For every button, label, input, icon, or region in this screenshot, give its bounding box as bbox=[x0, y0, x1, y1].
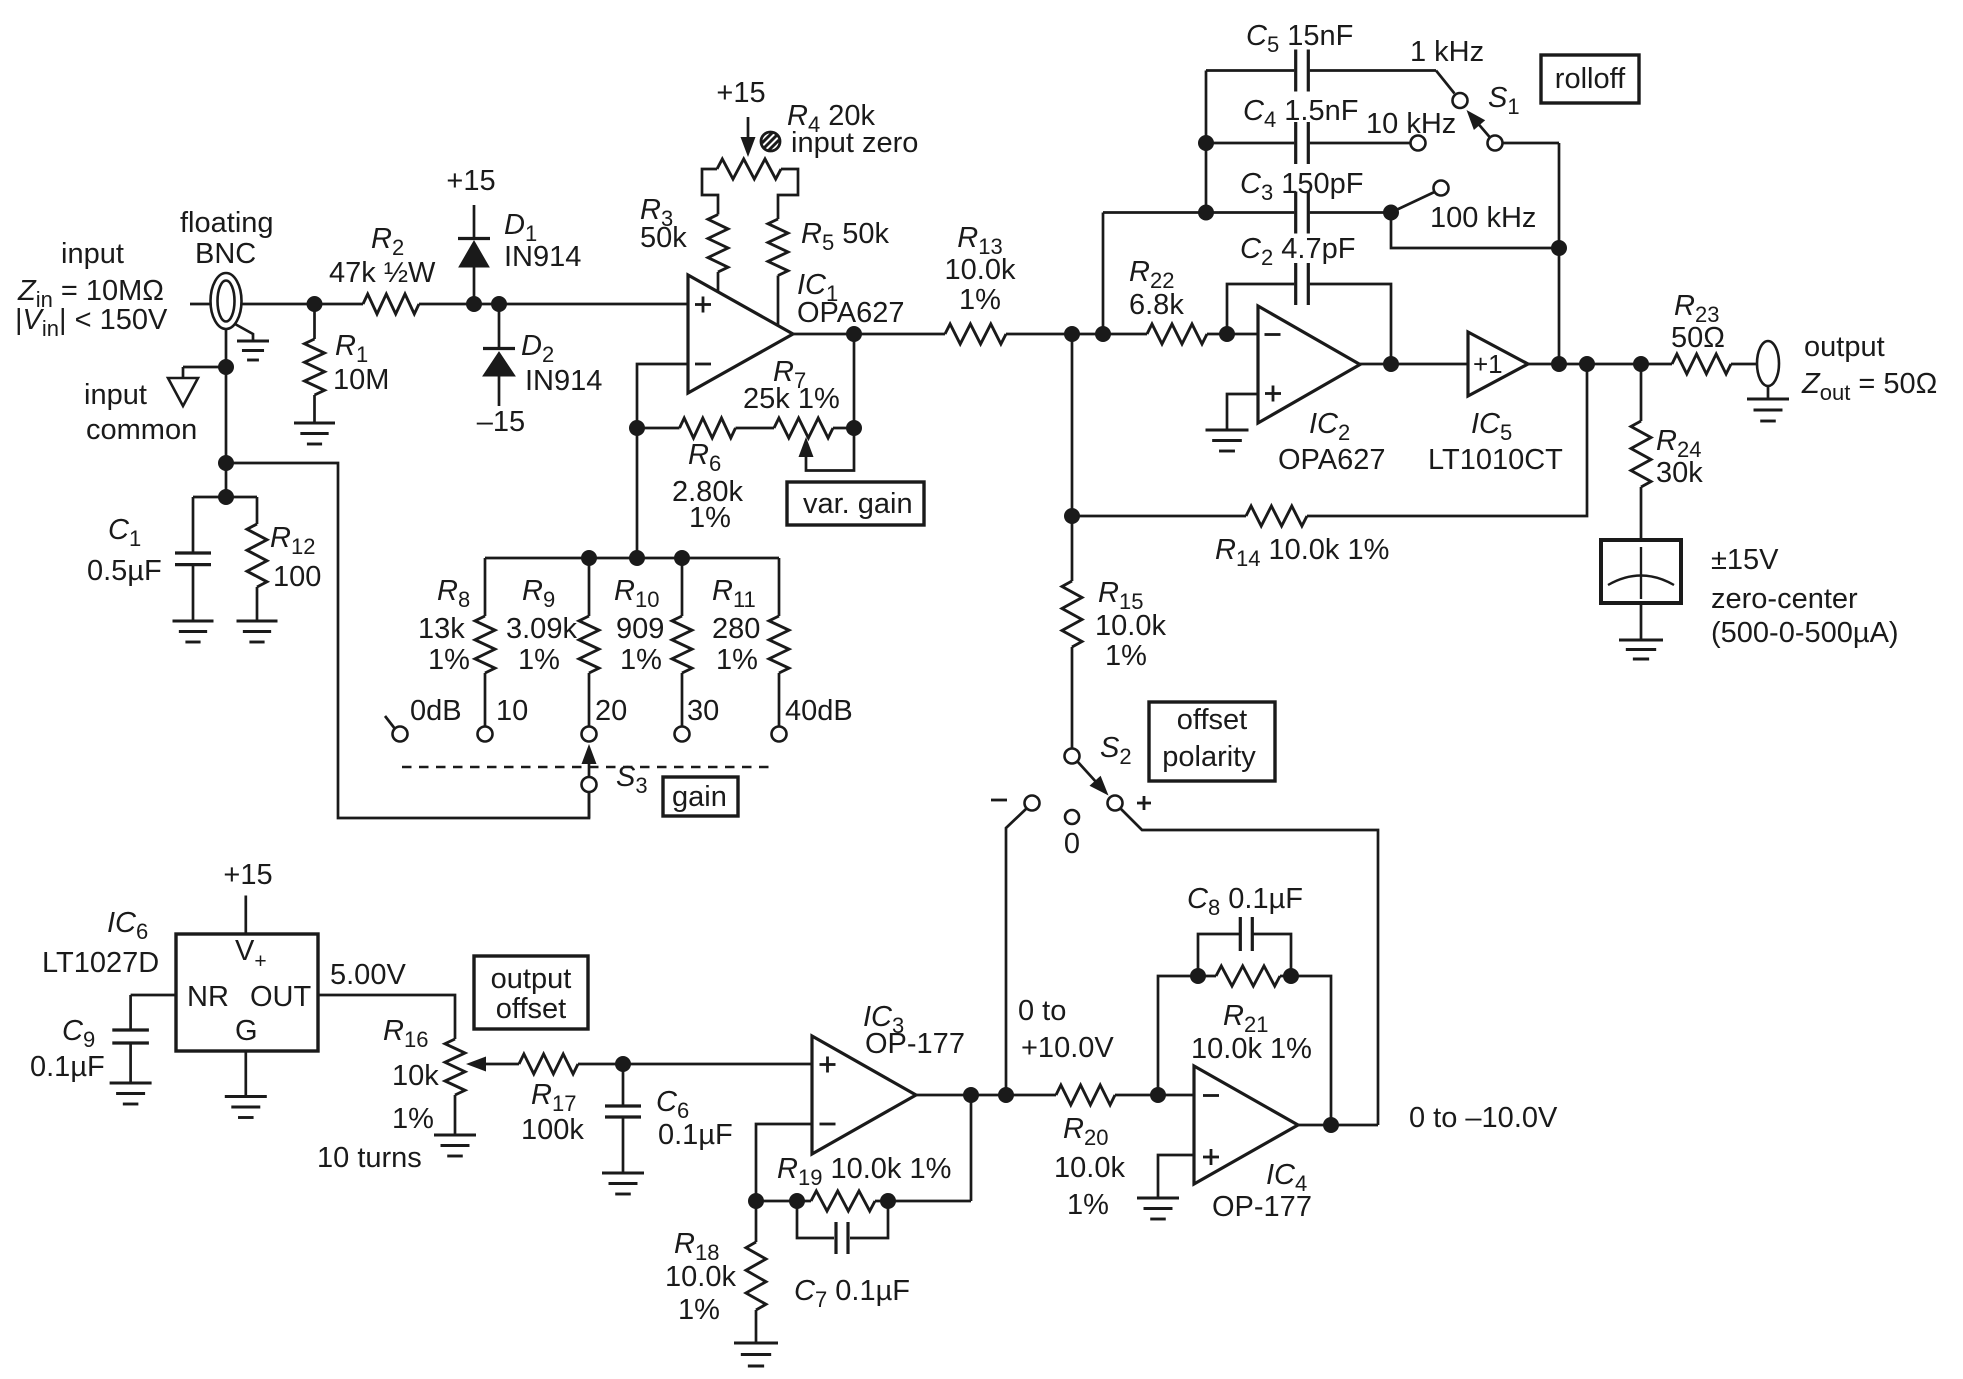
svg-text:0 to –10.0V: 0 to –10.0V bbox=[1409, 1102, 1558, 1134]
svg-text:1%: 1% bbox=[959, 284, 1001, 316]
svg-text:0.1µF: 0.1µF bbox=[30, 1051, 105, 1083]
svg-text:10 kHz: 10 kHz bbox=[1366, 108, 1456, 140]
svg-text:10.0k 1%: 10.0k 1% bbox=[1191, 1033, 1312, 1065]
svg-text:30k: 30k bbox=[1656, 457, 1703, 489]
svg-text:offset: offset bbox=[496, 993, 566, 1025]
svg-text:common: common bbox=[86, 414, 197, 446]
svg-text:OUT: OUT bbox=[250, 981, 312, 1013]
svg-text:output: output bbox=[491, 963, 572, 995]
svg-text:10.0k: 10.0k bbox=[1095, 610, 1166, 642]
svg-text:10 turns: 10 turns bbox=[317, 1142, 422, 1174]
svg-text:IN914: IN914 bbox=[504, 241, 581, 273]
svg-text:+10.0V: +10.0V bbox=[1021, 1032, 1114, 1064]
svg-text:floating: floating bbox=[180, 207, 274, 239]
svg-text:30: 30 bbox=[687, 695, 719, 727]
svg-text:1%: 1% bbox=[620, 644, 662, 676]
svg-text:+1: +1 bbox=[1473, 349, 1503, 379]
svg-text:1%: 1% bbox=[1067, 1189, 1109, 1221]
svg-text:10.0k: 10.0k bbox=[945, 254, 1016, 286]
svg-text:5.00V: 5.00V bbox=[330, 959, 406, 991]
svg-text:–15: –15 bbox=[477, 406, 525, 438]
svg-text:G: G bbox=[235, 1015, 258, 1047]
svg-text:0: 0 bbox=[1064, 828, 1080, 860]
svg-text:3.09k: 3.09k bbox=[506, 613, 577, 645]
svg-text:+15: +15 bbox=[716, 77, 765, 109]
svg-text:input: input bbox=[84, 379, 147, 411]
svg-text:1%: 1% bbox=[689, 502, 731, 534]
svg-text:1 kHz: 1 kHz bbox=[1410, 36, 1484, 68]
svg-text:offset: offset bbox=[1177, 704, 1247, 736]
svg-text:1%: 1% bbox=[678, 1294, 720, 1326]
svg-text:C4 1.5nF: C4 1.5nF bbox=[1243, 95, 1358, 132]
svg-text:|Vin| < 150V: |Vin| < 150V bbox=[15, 304, 168, 341]
svg-text:10M: 10M bbox=[333, 364, 389, 396]
svg-text:280: 280 bbox=[712, 613, 760, 645]
svg-text:LT1027D: LT1027D bbox=[42, 947, 159, 979]
svg-text:NR: NR bbox=[187, 981, 229, 1013]
svg-text:0 to: 0 to bbox=[1018, 995, 1066, 1027]
svg-text:100: 100 bbox=[273, 561, 321, 593]
svg-text:100k: 100k bbox=[521, 1114, 584, 1146]
svg-text:0dB: 0dB bbox=[410, 695, 462, 727]
svg-text:20: 20 bbox=[595, 695, 627, 727]
svg-text:C7 0.1µF: C7 0.1µF bbox=[794, 1275, 910, 1312]
svg-text:13k: 13k bbox=[418, 613, 465, 645]
svg-text:0.1µF: 0.1µF bbox=[658, 1119, 733, 1151]
svg-text:1%: 1% bbox=[392, 1103, 434, 1135]
svg-text:0.5µF: 0.5µF bbox=[87, 555, 162, 587]
svg-text:(500-0-500µA): (500-0-500µA) bbox=[1711, 617, 1899, 649]
svg-text:1%: 1% bbox=[518, 644, 560, 676]
svg-text:BNC: BNC bbox=[195, 238, 256, 270]
svg-text:var. gain: var. gain bbox=[803, 488, 913, 520]
svg-text:909: 909 bbox=[616, 613, 664, 645]
svg-text:C8 0.1µF: C8 0.1µF bbox=[1187, 883, 1303, 920]
svg-text:±15V: ±15V bbox=[1711, 544, 1779, 576]
svg-text:10k: 10k bbox=[392, 1060, 439, 1092]
svg-text:input: input bbox=[61, 238, 124, 270]
svg-text:25k 1%: 25k 1% bbox=[743, 383, 840, 415]
svg-text:OP-177: OP-177 bbox=[865, 1028, 965, 1060]
svg-text:10.0k: 10.0k bbox=[1054, 1152, 1125, 1184]
svg-text:OPA627: OPA627 bbox=[797, 297, 904, 329]
svg-text:+15: +15 bbox=[223, 859, 272, 891]
svg-text:10: 10 bbox=[496, 695, 528, 727]
svg-text:OPA627: OPA627 bbox=[1278, 444, 1385, 476]
svg-text:zero-center: zero-center bbox=[1711, 583, 1858, 615]
svg-text:OP-177: OP-177 bbox=[1212, 1191, 1312, 1223]
svg-text:R5 50k: R5 50k bbox=[801, 218, 890, 255]
svg-text:LT1010CT: LT1010CT bbox=[1428, 444, 1563, 476]
svg-text:C3 150pF: C3 150pF bbox=[1240, 168, 1364, 205]
svg-text:50Ω: 50Ω bbox=[1671, 322, 1725, 354]
svg-text:47k ½W: 47k ½W bbox=[329, 257, 436, 289]
svg-text:rolloff: rolloff bbox=[1555, 63, 1626, 95]
svg-text:polarity: polarity bbox=[1162, 741, 1256, 773]
svg-text:1%: 1% bbox=[428, 644, 470, 676]
svg-text:IN914: IN914 bbox=[525, 365, 602, 397]
svg-text:100 kHz: 100 kHz bbox=[1430, 202, 1536, 234]
svg-text:output: output bbox=[1804, 331, 1885, 363]
svg-text:gain: gain bbox=[672, 781, 727, 813]
svg-text:C5 15nF: C5 15nF bbox=[1246, 20, 1353, 57]
svg-text:10.0k: 10.0k bbox=[665, 1261, 736, 1293]
svg-text:40dB: 40dB bbox=[785, 695, 853, 727]
svg-text:1%: 1% bbox=[716, 644, 758, 676]
svg-text:1%: 1% bbox=[1105, 640, 1147, 672]
svg-text:50k: 50k bbox=[640, 222, 687, 254]
svg-text:input zero: input zero bbox=[791, 127, 918, 159]
svg-text:6.8k: 6.8k bbox=[1129, 289, 1184, 321]
svg-text:+15: +15 bbox=[446, 165, 495, 197]
svg-text:C2 4.7pF: C2 4.7pF bbox=[1240, 233, 1355, 270]
